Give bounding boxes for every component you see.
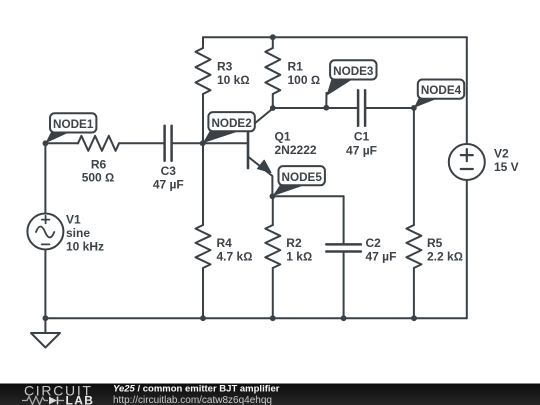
junction bottom R4	[200, 315, 206, 321]
footer bar	[0, 384, 540, 405]
junction bottom C2	[341, 315, 347, 321]
resistor R1	[265, 37, 280, 108]
junction top rail	[270, 34, 276, 40]
wire C3 to Q1 base	[173, 142, 247, 144]
wire bottom rail	[45, 317, 466, 319]
resistor R5	[406, 108, 421, 318]
label Q1	[275, 130, 317, 158]
svg-text:C2: C2	[366, 236, 382, 250]
svg-text:V2: V2	[494, 147, 509, 161]
svg-text:http://circuitlab.com/catw8z6q: http://circuitlab.com/catw8z6q4ehqq	[113, 395, 272, 405]
svg-text:C3: C3	[161, 164, 177, 178]
footer url	[113, 395, 272, 405]
junction bottom V1	[43, 315, 49, 321]
svg-text:47 µF: 47 µF	[153, 177, 184, 191]
resistor R6	[78, 136, 119, 151]
svg-text:NODE1: NODE1	[53, 118, 94, 131]
footer title	[113, 384, 280, 395]
svg-text:C1: C1	[354, 130, 370, 144]
svg-text:15 V: 15 V	[494, 160, 519, 174]
svg-text:sine: sine	[66, 226, 90, 240]
svg-text:Ye25 / common emitter BJT ampl: Ye25 / common emitter BJT amplifier	[113, 384, 280, 395]
svg-text:R2: R2	[286, 236, 302, 250]
capacitor C2	[326, 196, 361, 318]
label R4	[217, 236, 253, 264]
svg-text:V1: V1	[66, 213, 81, 227]
junction bottom R5	[411, 315, 417, 321]
node NODE1	[43, 113, 97, 146]
wire V1 to ground node	[44, 250, 46, 319]
svg-text:NODE4: NODE4	[421, 84, 462, 97]
label V1	[66, 213, 104, 254]
svg-text:NODE2: NODE2	[211, 117, 252, 130]
svg-text:4.7 kΩ: 4.7 kΩ	[217, 250, 253, 264]
wire V2 top lead	[466, 37, 468, 144]
svg-text:NODE3: NODE3	[333, 65, 374, 78]
transistor Q1	[248, 109, 273, 197]
label R3	[217, 60, 250, 88]
junction collector node	[270, 105, 276, 111]
svg-text:10 kΩ: 10 kΩ	[217, 73, 250, 87]
wire NODE1 to R6	[45, 142, 78, 144]
wire collector to C1	[273, 107, 357, 109]
label C1	[346, 130, 377, 158]
node NODE3	[323, 60, 376, 110]
svg-text:R6: R6	[91, 157, 107, 171]
label R6	[82, 157, 115, 184]
node NODE2	[200, 112, 255, 146]
resistor R4	[196, 143, 211, 318]
svg-text:1 kΩ: 1 kΩ	[286, 250, 312, 264]
label R1	[288, 60, 321, 88]
svg-text:NODE5: NODE5	[282, 171, 323, 184]
capacitor C3	[165, 126, 172, 161]
svg-text:10 kHz: 10 kHz	[66, 240, 104, 254]
svg-text:47 µF: 47 µF	[366, 250, 397, 264]
svg-text:LAB: LAB	[66, 393, 95, 405]
node NODE5	[270, 166, 325, 199]
svg-text:Q1: Q1	[275, 130, 291, 144]
svg-text:R4: R4	[217, 236, 233, 250]
svg-text:R5: R5	[427, 236, 443, 250]
wire V1 top lead	[44, 143, 46, 213]
voltage source V2	[449, 144, 485, 180]
CircuitLab logo	[22, 383, 94, 405]
wire R6 to C3	[119, 142, 163, 144]
label V2	[494, 147, 519, 175]
resistor R3	[196, 37, 211, 143]
wire C1 to NODE4	[366, 107, 414, 109]
wire NODE5 row	[272, 195, 343, 197]
svg-text:100 Ω: 100 Ω	[288, 73, 321, 87]
label C3	[153, 164, 184, 191]
wire V2 bottom lead	[466, 180, 468, 318]
svg-text:500 Ω: 500 Ω	[82, 170, 115, 184]
label C2	[366, 236, 397, 264]
resistor R2	[265, 196, 280, 318]
svg-text:2.2 kΩ: 2.2 kΩ	[427, 250, 463, 264]
ground	[31, 318, 60, 347]
svg-text:R3: R3	[217, 60, 233, 74]
node NODE4	[411, 80, 464, 111]
svg-text:R1: R1	[288, 60, 304, 74]
label R5	[427, 236, 463, 264]
label R2	[286, 236, 312, 264]
svg-text:47 µF: 47 µF	[346, 143, 377, 157]
svg-text:2N2222: 2N2222	[275, 143, 317, 157]
voltage source V1	[27, 214, 63, 250]
junction bottom R2	[270, 315, 276, 321]
wire top rail	[203, 36, 467, 38]
capacitor C1	[358, 90, 365, 126]
